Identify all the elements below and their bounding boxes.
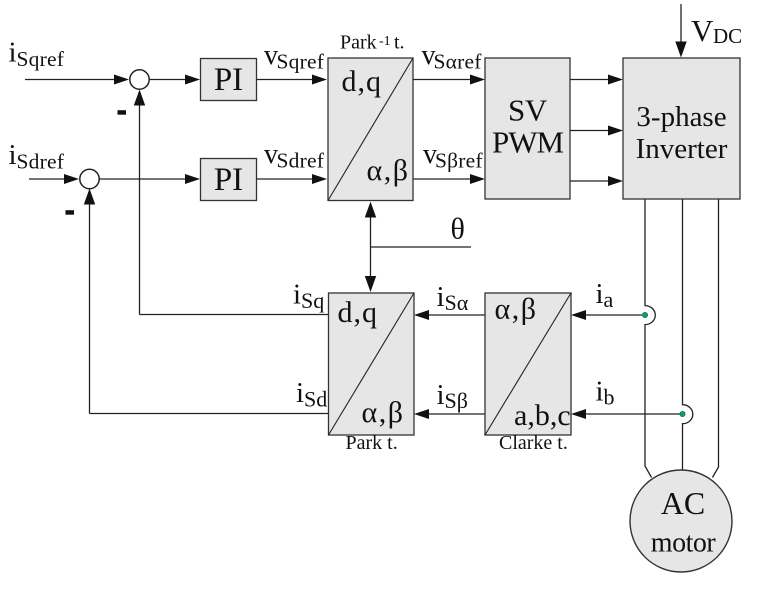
svg-text:Sd: Sd: [304, 386, 327, 411]
label VDC: [691, 13, 742, 48]
wire inverter phase b to motor with sensor loop: [683, 199, 693, 470]
label iSdref: [9, 139, 65, 173]
svg-text:Sq: Sq: [301, 288, 324, 313]
wire iSdref to summing node 2: [29, 174, 79, 184]
svg-text:Sqref: Sqref: [277, 49, 325, 73]
svg-text:Clarke t.: Clarke t.: [499, 432, 568, 454]
svg-text:d,q: d,q: [338, 296, 379, 329]
svg-text:b: b: [604, 384, 615, 409]
svg-text:t.: t.: [394, 32, 405, 54]
wire SVPWM to inverter phase c: [570, 176, 623, 186]
svg-text:i: i: [437, 379, 445, 411]
label iSbeta: [437, 379, 468, 413]
minus sign at node 2: [66, 210, 75, 215]
label iSalpha: [437, 281, 469, 315]
svg-text:SV: SV: [508, 93, 548, 128]
wire iSalpha Clarke to Park: [414, 310, 485, 320]
wire PI2 to inverse Park block: [257, 174, 328, 184]
AC motor M1: [630, 470, 732, 572]
svg-text:PI: PI: [214, 162, 243, 198]
svg-text:Sαref: Sαref: [434, 49, 483, 73]
summing node 1: [130, 70, 149, 89]
wire ib sensor to Clarke: [571, 409, 680, 419]
svg-text:i: i: [293, 278, 301, 310]
svg-text:Park: Park: [340, 32, 377, 54]
svg-text:3-phase: 3-phase: [636, 101, 726, 133]
wire theta feed: [371, 246, 472, 248]
svg-text:i: i: [9, 139, 17, 171]
svg-text:i: i: [9, 37, 17, 69]
wire PI1 to inverse Park block: [257, 75, 328, 85]
wire vSalpha-ref to SVPWM: [413, 75, 485, 85]
svg-text:-1: -1: [379, 34, 391, 49]
svg-text:i: i: [437, 281, 445, 313]
svg-text:AC: AC: [661, 485, 705, 521]
wire vSbeta-ref to SVPWM: [413, 174, 485, 184]
svg-text:PWM: PWM: [492, 125, 564, 160]
wire ia sensor to Clarke: [571, 310, 642, 320]
inverse Park transform block U1: [328, 58, 413, 201]
wire iSd feedback to summing node 2: [84, 189, 329, 414]
svg-text:PI: PI: [214, 62, 243, 98]
label iSq: [293, 278, 324, 312]
svg-text:DC: DC: [713, 24, 742, 48]
svg-text:Park t.: Park t.: [346, 432, 398, 454]
summing node 2: [80, 169, 99, 188]
svg-text:α,β: α,β: [362, 396, 405, 429]
label iSqref: [9, 37, 65, 71]
svg-text:motor: motor: [651, 528, 717, 559]
label vSalpha-ref: [422, 40, 483, 74]
label inverse Park transform: [340, 32, 405, 54]
svg-text:i: i: [596, 278, 604, 310]
label vSbeta-ref: [423, 139, 483, 173]
svg-text:Inverter: Inverter: [636, 133, 728, 165]
label vSqref: [264, 40, 325, 74]
wire iSbeta Clarke to Park: [414, 409, 485, 419]
svg-text:a: a: [604, 287, 614, 312]
svg-text:i: i: [596, 376, 604, 408]
svg-text:Sdref: Sdref: [277, 148, 325, 172]
wire summing node 1 to PI1: [150, 75, 200, 85]
PI controller block PI2: [201, 159, 257, 201]
3-phase inverter block U3: [623, 58, 740, 199]
label ib: [596, 376, 615, 410]
minus sign at node 1: [118, 110, 127, 115]
Clarke transform block U5: [485, 293, 571, 436]
svg-text:Sβref: Sβref: [435, 148, 483, 172]
label vSdref: [264, 139, 325, 173]
svg-text:Sα: Sα: [445, 290, 469, 315]
svg-text:Sdref: Sdref: [17, 149, 65, 173]
svg-text:Sβ: Sβ: [445, 388, 468, 413]
svg-text:θ: θ: [451, 213, 465, 246]
svg-text:Sqref: Sqref: [17, 47, 65, 71]
PI controller block PI1: [201, 59, 257, 101]
current sensor dot ia: [642, 312, 647, 317]
current sensor dot ib: [680, 411, 685, 416]
wire SVPWM to inverter phase b: [570, 126, 623, 136]
wire theta to Park blocks both arrows: [365, 202, 376, 293]
svg-text:V: V: [691, 13, 714, 48]
svg-text:α,β: α,β: [495, 293, 538, 326]
wire SVPWM to inverter phase a: [570, 75, 623, 85]
wire inverter phase c to motor: [713, 199, 719, 478]
SV PWM block U2: [485, 58, 570, 199]
svg-text:i: i: [296, 377, 304, 409]
label ia: [596, 278, 614, 312]
svg-text:α,β: α,β: [367, 154, 410, 187]
wire inverter phase a to motor with sensor loop: [645, 199, 655, 478]
wire iSq feedback to summing node 1: [134, 90, 329, 315]
svg-text:d,q: d,q: [342, 65, 383, 98]
svg-text:a,b,c: a,b,c: [514, 399, 571, 432]
label iSd: [296, 377, 327, 411]
Park transform block U4: [329, 293, 415, 435]
wire summing node 2 to PI2: [100, 174, 201, 184]
wire VDC supply: [675, 4, 686, 58]
wire iSqref to summing node 1: [25, 75, 129, 85]
